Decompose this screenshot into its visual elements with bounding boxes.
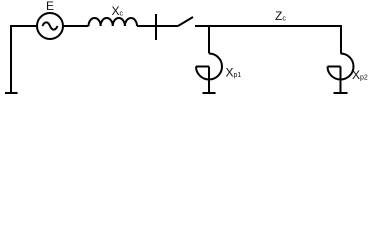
source E [37,13,63,39]
svg-text:Xp2: Xp2 [352,68,368,82]
svg-text:Xc: Xc [112,4,124,18]
reactor Xp1 [196,54,222,94]
ground (Xp1) [203,92,216,94]
svg-text:Zc: Zc [275,9,286,23]
wire [195,25,341,27]
svg-text:E: E [46,0,54,13]
ground (Xp2) [334,92,348,94]
wire (right drop) [340,25,342,54]
ground (left, source return) [5,27,18,93]
wire [63,25,89,27]
inductor Xc [89,18,138,26]
bus tick [155,14,157,40]
svg-text:Xp1: Xp1 [226,66,242,80]
wire [10,25,37,27]
wire [137,25,178,27]
reactor Xp2 [328,54,354,94]
switch blade [178,17,193,26]
wire (junction drop) [208,26,210,54]
